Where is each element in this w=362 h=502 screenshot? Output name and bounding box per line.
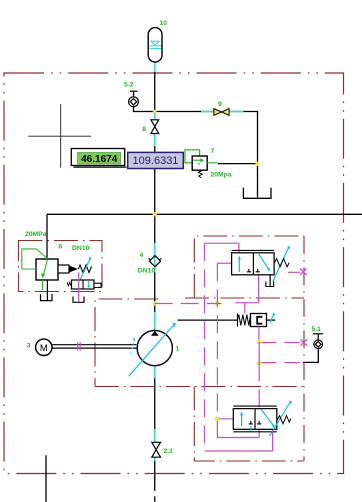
crosshair cursor (28, 104, 91, 168)
wire pump control to middle valve (178, 319, 238, 321)
enclosure item 6 (19, 241, 103, 292)
relief valve 7 (185, 150, 200, 163)
check valve 4 (149, 256, 160, 267)
enclosure upper valve frame (194, 236, 304, 298)
svg-text:20Mpa: 20Mpa (211, 171, 232, 178)
svg-text:20MPa: 20MPa (25, 231, 47, 238)
svg-text:4: 4 (140, 252, 144, 259)
plug X upper (300, 269, 307, 276)
upper valve drain tank (269, 275, 271, 286)
pilot vertical x=217.4 (216, 263, 218, 419)
wire main vertical line (154, 62, 156, 502)
junction dot F (257, 340, 261, 344)
display 46.1674 (71, 149, 124, 166)
enclosure outer boundary (dash-dot) (4, 73, 344, 474)
svg-text:1: 1 (176, 346, 180, 353)
wire check valve 5.1 output (303, 349, 318, 363)
pilot line main tap y=303.5 (155, 303, 222, 305)
shaft end arcs (131, 340, 135, 355)
lower valve (proportional directional) (233, 409, 276, 430)
junction dot E (215, 301, 219, 305)
middle valve (pilot pressure valve) (238, 314, 251, 327)
svg-text:9: 9 (218, 101, 222, 108)
enclosure lower valve frame (194, 387, 303, 462)
junction dot G (257, 361, 261, 365)
pilot line to plug X middle (262, 342, 300, 344)
svg-text:3: 3 (27, 342, 31, 349)
upper valve (proportional directional) (232, 253, 275, 275)
check valve 5.1 (313, 334, 323, 349)
coupling marks (78, 342, 80, 350)
enclosure pump left (95, 299, 158, 387)
wire supply horizontal y=214.3 (47, 213, 362, 215)
svg-text:2.1: 2.1 (164, 448, 174, 455)
svg-text:DN10: DN10 (72, 245, 90, 252)
wire relief valve 7 output (218, 163, 258, 165)
svg-text:109.6331: 109.6331 (133, 155, 179, 167)
pilot valve of 6 (72, 280, 95, 289)
svg-text:7: 7 (211, 148, 215, 155)
tank top right (243, 188, 271, 199)
gauge check valve 5.2 (129, 91, 139, 106)
wire bottom left return (45, 455, 47, 502)
svg-text:5.1: 5.1 (312, 326, 322, 333)
valve 8 (151, 120, 159, 134)
accumulator 10 (148, 28, 162, 62)
enclosure divider line (95, 386, 304, 388)
motor 3 (36, 339, 52, 355)
reducing valve 6 (36, 259, 58, 280)
pilot line to check valve 5.1 (262, 362, 301, 364)
cyan highlight segments (155, 62, 244, 461)
svg-text:10: 10 (160, 20, 168, 27)
pilot vertical x=204.45 (203, 243, 205, 451)
junction dot A (153, 110, 157, 114)
wire drop to valve 6 (46, 214, 48, 259)
junction dot H (215, 417, 219, 421)
svg-text:6: 6 (59, 244, 63, 251)
upper valve drain to middle valve (235, 275, 258, 314)
wire middle valve output stub (267, 319, 276, 321)
valve 2.1 (152, 442, 161, 457)
junction dot D (153, 301, 157, 305)
wire motor shaft (52, 345, 136, 348)
junction dot C (153, 212, 157, 216)
junction dot B (255, 162, 259, 166)
enclosure right edge (303, 236, 305, 461)
svg-text:DN10: DN10 (138, 267, 156, 274)
shutoff valve 9 (yellow) (214, 109, 229, 116)
svg-text:5.2: 5.2 (124, 82, 134, 89)
svg-text:46.1674: 46.1674 (81, 154, 118, 165)
wire top horizontal y=111.5 (134, 107, 258, 198)
pump 1 (137, 331, 172, 366)
display 109.6331 (128, 152, 184, 168)
svg-text:8: 8 (142, 126, 146, 133)
svg-text:M: M (40, 343, 48, 354)
